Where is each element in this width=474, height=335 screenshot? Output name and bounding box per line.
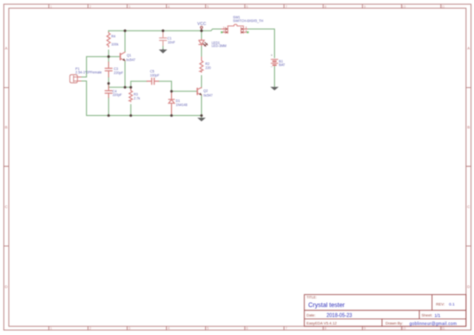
svg-text:BAT: BAT [279,63,285,67]
wire R3 branch [130,87,132,115]
junction node bottom rail D1 [170,114,173,117]
wire D1 branch (red pin leads) [171,92,173,115]
junction node bottom rail C4 [107,114,110,117]
wire emitter junction row [109,86,131,88]
LED LED1 [199,39,204,46]
resistor R4 [107,32,110,47]
svg-text:4: 4 [168,327,170,331]
transistor Q1 [119,54,121,60]
svg-text:bc547: bc547 [204,93,213,97]
svg-text:9: 9 [364,5,366,9]
svg-text:6: 6 [246,5,248,9]
SW1 pin numbers [223,26,247,33]
svg-text:A: A [5,45,8,50]
svg-text:8: 8 [324,327,326,331]
svg-text:SWITCH-6X6X5_TH: SWITCH-6X6X5_TH [233,19,264,23]
wire battery to ground [274,66,276,87]
wire P1 pin1 riser [81,57,87,77]
svg-text:7: 7 [285,327,287,331]
svg-text:Q1: Q1 [127,54,132,58]
row ticks left [4,88,9,246]
svg-text:VCC: VCC [197,21,206,26]
svg-text:REV:: REV: [436,303,445,307]
ground below Q2 [197,118,205,122]
svg-text:7: 7 [285,5,287,9]
resistor R3 [129,88,132,102]
svg-text:100k: 100k [111,42,119,46]
wire C5 branch [131,81,172,91]
wire rail jog to switch [202,29,222,31]
svg-text:B: B [467,125,470,130]
svg-text:10: 10 [402,327,406,331]
wire C1 branch [162,31,164,50]
svg-text:−: − [271,65,273,69]
svg-text:11: 11 [441,5,445,9]
svg-text:10nF: 10nF [168,41,176,45]
junction node VCC [200,29,203,32]
capacitor C3 [108,62,110,77]
svg-text:2.54-1*2PFemale: 2.54-1*2PFemale [75,70,102,74]
svg-text:Sheet:: Sheet: [422,314,433,318]
switch SW1 [222,24,248,33]
wire VCC rail top [109,30,202,32]
capacitor C4 [108,86,110,98]
Q1 emitter arrow [123,58,126,61]
column ticks bottom [49,326,441,330]
svg-text:C: C [467,204,470,209]
junction node top rail at C1 [162,29,165,32]
junction node Q1 base / R4 [107,55,110,58]
svg-text:11: 11 [441,327,445,331]
svg-text:2.7k: 2.7k [134,97,141,101]
SW1 contact dots [226,28,243,33]
wire Q1 collector [124,31,126,52]
svg-text:1: 1 [50,5,52,9]
svg-text:Drawn By:: Drawn By: [386,322,404,326]
svg-text:100pF: 100pF [150,73,159,77]
ground below battery [270,87,278,91]
svg-text:EasyEDA V5.4.12: EasyEDA V5.4.12 [307,321,337,325]
wire C3 C4 chain [108,57,110,116]
svg-text:2018-05-23: 2018-05-23 [327,313,353,319]
transistor Q2 [196,88,198,94]
svg-text:10: 10 [402,5,406,9]
svg-text:TITLE:: TITLE: [307,295,317,299]
junction node D1 Q2 base [170,90,173,93]
svg-text:5: 5 [207,327,209,331]
svg-text:B: B [5,125,8,130]
Q2 emitter arrow [199,93,202,96]
svg-text:LED-3MM: LED-3MM [212,44,227,48]
B1 plus minus [271,54,273,70]
svg-text:bc547: bc547 [126,58,135,62]
wire R4 branch [108,31,110,57]
junction node bottom rail Q2 [200,114,203,117]
svg-text:220pF: 220pF [113,93,122,97]
junction node emitter row R3 [130,86,133,89]
VCC net flag [197,21,206,31]
wire P1 pin2 down [81,81,87,116]
svg-text:0.1: 0.1 [449,302,455,307]
LED1 arrows [203,42,207,46]
resistor R2 [200,57,203,72]
row letters [5,45,471,288]
junction node bottom rail R3 [130,114,133,117]
svg-text:3: 3 [128,5,130,9]
wire switch to battery [247,29,274,58]
svg-text:8: 8 [324,5,326,9]
P1 pins [77,77,81,81]
svg-text:2: 2 [89,327,91,331]
svg-text:220pF: 220pF [114,71,123,75]
battery B1 [271,59,278,63]
svg-text:+: + [271,54,273,58]
svg-text:C: C [5,204,8,209]
svg-text:D: D [5,284,8,289]
svg-text:6: 6 [246,327,248,331]
ground below C1 [159,49,167,53]
junction node C3-C4 [107,82,110,85]
wire Q1 emitter [124,61,126,88]
svg-text:2: 2 [89,5,91,9]
connector P1 [70,75,78,83]
svg-text:1/1: 1/1 [435,313,441,318]
capacitor C5 [147,78,159,84]
svg-text:D: D [467,284,470,289]
wire Q2 base [172,90,197,92]
title block [304,295,466,327]
junction node emitter row Q1 [124,86,127,89]
column ticks top [49,4,441,8]
svg-text:Date:: Date: [307,314,316,318]
svg-text:9: 9 [364,327,366,331]
wire Q2 emitter to ground [201,95,203,118]
svg-text:4: 4 [168,5,170,9]
wire Q1 base [87,56,120,58]
svg-text:goblinneur@gmail.com: goblinneur@gmail.com [410,321,458,326]
SW1 pin end markers [221,32,248,33]
capacitor C1 [162,32,164,45]
svg-text:3: 3 [128,327,130,331]
svg-text:5: 5 [207,5,209,9]
wire bottom rail [87,115,202,117]
svg-text:A: A [467,45,470,50]
svg-text:R4: R4 [111,35,115,39]
diode D1 [169,98,175,104]
svg-text:1: 1 [50,327,52,331]
junction node top rail at Q1 collector [124,29,127,32]
row ticks right [466,88,471,246]
svg-text:1N4148: 1N4148 [176,103,188,107]
svg-text:220: 220 [205,66,211,70]
wire LED R2 chain [201,31,203,88]
svg-text:Crystal tester: Crystal tester [308,302,344,309]
